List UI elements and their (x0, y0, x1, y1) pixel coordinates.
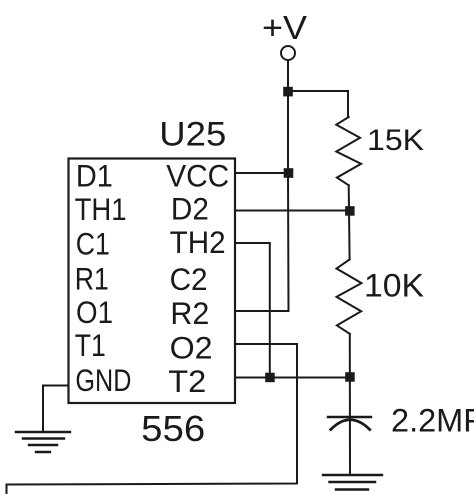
svg-text:15K: 15K (367, 124, 424, 157)
wire +V vertical rail down to R2 corner (287, 61, 290, 312)
svg-text:C2: C2 (170, 261, 208, 297)
wire D2 pin to 15K/10K junction (235, 210, 350, 212)
svg-text:T1: T1 (75, 327, 106, 363)
svg-text:O2: O2 (170, 330, 213, 366)
capacitor C 2.2MFD curved plate (331, 420, 370, 430)
wire R2 pin to +V rail corner (235, 310, 289, 312)
svg-text:GND: GND (75, 362, 131, 398)
wire 10K bottom through capacitor to ground (349, 334, 351, 474)
svg-text:556: 556 (141, 408, 205, 449)
svg-text:TH1: TH1 (75, 191, 127, 227)
IC body U25 box (69, 159, 236, 404)
junction VCC on +V rail (284, 168, 294, 178)
junction TH2/T2 (265, 373, 275, 383)
wire VCC pin to +V rail (235, 172, 289, 174)
svg-text:U25: U25 (159, 116, 226, 154)
svg-text:+V: +V (262, 9, 307, 46)
svg-text:R2: R2 (170, 295, 209, 331)
+V terminal circle (281, 46, 295, 60)
wire O2 pin down and along bottom (7, 344, 298, 494)
wire TH2 pin down to T2 net (235, 243, 270, 373)
resistor 10K zigzag (337, 259, 362, 333)
junction 15K/10K with D2 wire (345, 206, 355, 216)
svg-text:TH2: TH2 (170, 224, 226, 260)
wire T2 pin to 10K/cap junction (235, 377, 350, 379)
svg-text:D1: D1 (76, 158, 113, 194)
svg-text:O1: O1 (76, 294, 113, 330)
capacitor C 2.2MFD top plate (328, 416, 371, 418)
ground symbol under capacitor (323, 474, 382, 476)
svg-text:T2: T2 (168, 363, 206, 399)
svg-text:R1: R1 (75, 260, 109, 296)
ground symbol at GND pin (16, 431, 70, 433)
svg-text:10K: 10K (364, 268, 424, 304)
wire 15K bottom to 10K top (348, 185, 351, 259)
svg-text:C1: C1 (76, 225, 110, 261)
wire GND pin to ground (43, 386, 69, 433)
svg-text:D2: D2 (171, 191, 209, 227)
svg-text:VCC: VCC (166, 157, 229, 193)
resistor 15K zigzag (336, 117, 361, 185)
junction +V rail / 15K branch (283, 87, 293, 97)
wire branch from +V rail to 15K resistor top (288, 91, 348, 117)
svg-text:2.2MFD: 2.2MFD (391, 403, 474, 439)
junction 10K/cap with T2 wire (345, 372, 355, 382)
